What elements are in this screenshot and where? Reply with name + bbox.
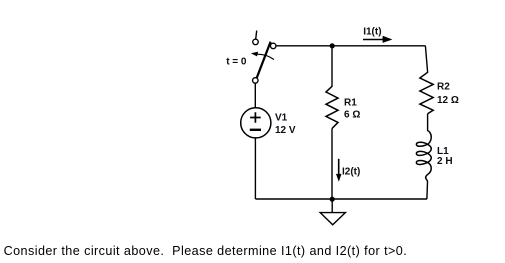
current arrow I2(t) — [336, 159, 360, 182]
switch S1 — [251, 31, 276, 84]
ground — [320, 199, 345, 225]
svg-text:I2(t): I2(t) — [342, 166, 360, 177]
svg-text:12 Ω: 12 Ω — [437, 95, 459, 106]
wire bottom horizontal — [255, 198, 427, 200]
switch arc arrowhead — [251, 52, 258, 57]
wire middle branch upper — [331, 46, 333, 86]
svg-text:12 V: 12 V — [275, 125, 296, 136]
node dot bottom (junction at ground) — [330, 197, 335, 202]
switch terminal right — [270, 43, 276, 49]
wire VS to switch — [254, 83, 256, 108]
svg-text:t = 0: t = 0 — [226, 56, 247, 67]
voltage source V1 — [241, 108, 271, 138]
svg-text:R2: R2 — [437, 82, 450, 93]
resistor R2 — [420, 72, 433, 114]
svg-text:I1(t): I1(t) — [363, 27, 381, 38]
wire middle branch lower — [331, 129, 333, 200]
svg-text:6 Ω: 6 Ω — [344, 110, 360, 121]
svg-text:R1: R1 — [344, 98, 357, 109]
svg-text:2 H: 2 H — [437, 156, 453, 167]
switch terminal bottom — [253, 78, 258, 84]
inductor L1 — [416, 131, 431, 183]
wire R2 to L1 — [427, 114, 429, 131]
switch motion arc — [258, 54, 274, 59]
wire top horizontal — [276, 45, 426, 47]
switch arm — [257, 42, 271, 78]
switch terminal top-left — [253, 39, 259, 45]
current arrow I1(t) — [363, 27, 392, 43]
caption text — [4, 244, 408, 258]
wire right branch upper — [425, 46, 427, 72]
resistor R1 — [326, 86, 338, 129]
wire L1 to bottom — [426, 182, 429, 199]
switch stub top — [256, 31, 257, 40]
node dot top (junction of I1/R1) — [330, 43, 335, 48]
svg-text:V1: V1 — [275, 112, 288, 123]
wire left branch lower — [254, 138, 256, 199]
